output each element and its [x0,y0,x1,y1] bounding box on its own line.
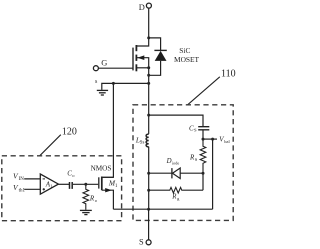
resistor R_g [149,187,203,193]
diode D triangle [173,168,181,179]
node drain junction [147,36,150,39]
svg-text:bal: bal [224,139,230,144]
node R_g row left junction [147,189,150,192]
wire C_o to gate [73,183,98,185]
svg-text:o: o [95,198,98,203]
label D_iode [166,158,180,165]
node bottom rail junction [147,208,150,211]
label C_o [67,170,75,178]
wire kelvin source to ground [102,83,149,90]
svg-text:s: s [95,79,98,85]
op-amp minus mark [43,178,45,180]
svg-text:1: 1 [115,184,118,189]
wire bottom rail [113,208,212,210]
box 110 dashed [133,105,233,221]
resistor R_S [200,139,206,173]
svg-text:iode: iode [172,160,179,165]
node diode row left junction [147,172,150,175]
wire top RC branch [149,115,203,126]
transistor M1 gate bar [98,177,100,188]
wire outer vertical to bottom rail [212,139,214,209]
wire inductor to bottom [148,147,150,210]
wire diode row left [149,172,172,174]
wire diode row right [180,172,203,174]
label R_o [89,195,98,203]
svg-text:110: 110 [221,68,236,79]
inductor L_Ss [146,134,149,147]
svg-text:SiC: SiC [179,46,190,55]
wire drain vertical from D [136,8,148,46]
wire source lead [136,67,148,69]
transistor channel segment 2 [135,55,137,61]
wire C_S to node [202,130,204,139]
label L_Ss [135,137,145,146]
svg-text:D: D [139,3,145,12]
transistor M1 channel bar [101,177,103,191]
label A1 [45,180,54,188]
diode body triangle [155,51,167,61]
body arrow [137,55,144,60]
node junction to NMOS drain [112,82,115,85]
leader 120 [40,135,61,156]
terminal G [93,66,98,71]
box 120 dashed [2,156,122,221]
svg-text:D: D [166,158,172,165]
svg-text:NMOS: NMOS [91,165,112,173]
wire down to NMOS drain [102,83,114,177]
resistor R_o [83,184,89,210]
svg-text:S: S [139,238,144,247]
node top RC junction [147,114,150,117]
svg-text:S: S [195,157,198,162]
wire to S terminal [148,209,150,240]
diode body cathode bar [154,49,166,51]
node kelvin source junction [147,82,150,85]
svg-text:S: S [194,128,197,133]
wire V_bal stub [203,138,217,140]
wire input Vth1 [24,188,40,190]
transistor channel segment 3 [135,64,137,71]
wire body diode bottom [149,61,161,75]
terminal S [146,240,151,245]
node V_bal junction 2 [211,138,214,141]
wire gate [99,67,134,69]
node diode row right junction [202,172,205,175]
label M1 [108,179,118,189]
op-amp A1 [40,174,58,194]
wire op-amp output [58,183,69,185]
label R_g [171,194,180,201]
op-amp plus mark [43,188,45,190]
label R_S [189,154,198,162]
wire source down [148,68,150,134]
svg-text:MOSET: MOSET [174,55,200,64]
leader 110 [188,77,220,105]
capacitor C_o [70,182,73,189]
node V_bal junction 1 [202,138,205,141]
wire M1 source lead [102,190,114,209]
svg-text:Ss: Ss [140,141,145,146]
svg-text:IN: IN [19,177,25,182]
wire right column down [202,173,204,190]
node source junction [147,66,150,69]
wire to body diode branch top [149,38,161,51]
ground (driver reference) [97,90,108,95]
label V_bal [219,136,230,144]
wire body lead [136,58,148,68]
transistor SiC MOSFET gate bar [132,48,134,71]
wire M1 drain lead [102,176,114,178]
label V_th1 [13,183,25,194]
svg-text:G: G [101,58,107,67]
diode D cathode bar [171,168,173,178]
capacitor C_S [198,127,209,130]
transistor channel segment 1 [135,45,137,51]
node gate junction [84,183,87,186]
M1 source arrow [105,188,112,192]
terminal D [146,3,151,8]
svg-text:g: g [177,196,180,201]
wire input VIN [24,178,40,180]
label V_IN [13,172,24,183]
svg-text:o: o [72,173,75,178]
svg-text:120: 120 [62,126,77,137]
label C_S [189,124,197,132]
ground (R_o) [80,210,92,214]
node diode-source junction [147,74,150,77]
